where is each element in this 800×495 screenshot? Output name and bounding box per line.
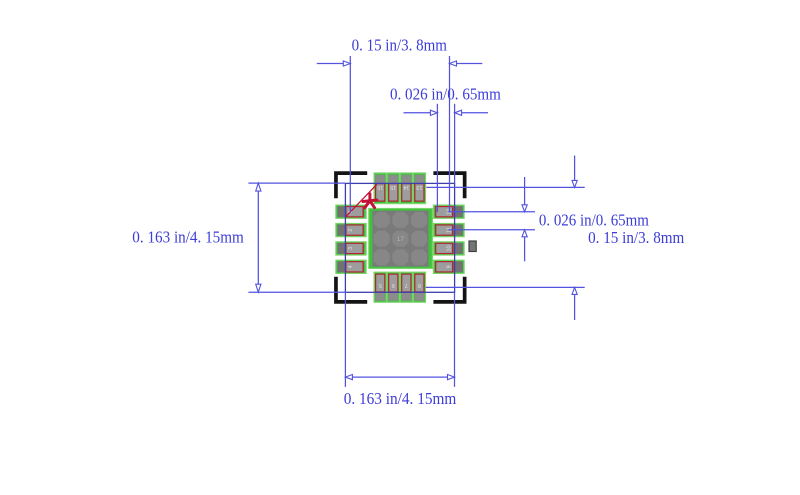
svg-text:7: 7: [405, 282, 408, 288]
pad 8 (bottom row): [413, 272, 425, 302]
pad 5 (bottom row): [374, 272, 386, 302]
svg-text:15: 15: [390, 184, 396, 190]
pad 11 (right column): [433, 223, 464, 236]
courtyard corner bracket top-right: [433, 171, 466, 198]
pin 1 indicator diagonal line: [346, 184, 377, 216]
pad 1 (left column): [336, 205, 366, 218]
pad 9 (right column): [433, 260, 464, 273]
pad 12 (right column): [433, 205, 464, 218]
svg-text:0. 026 in/0. 65mm: 0. 026 in/0. 65mm: [390, 85, 501, 104]
svg-text:8: 8: [418, 282, 421, 288]
svg-text:0. 026 in/0. 65mm: 0. 026 in/0. 65mm: [539, 211, 650, 230]
courtyard corner bracket bottom-right: [433, 277, 466, 304]
pad 3 (left column): [336, 242, 366, 255]
dimension 0.15in/3.8mm (right, vertical): [426, 156, 685, 321]
courtyard corner bracket top-left: [334, 171, 367, 198]
svg-text:16: 16: [377, 184, 383, 190]
dimension 0.163in/4.15mm (bottom, horizontal): [344, 292, 457, 408]
pad 10 (right column): [433, 242, 464, 255]
pad 13 (top row): [413, 173, 425, 204]
svg-text:0. 15 in/3. 8mm: 0. 15 in/3. 8mm: [352, 35, 448, 54]
courtyard corner bracket bottom-left: [334, 277, 367, 304]
pad 2 (left column): [336, 223, 366, 236]
dimension 0.163in/4.15mm (left, vertical): [132, 183, 345, 292]
svg-text:4: 4: [348, 265, 354, 268]
dimension 0.15in/3.8mm (top, horizontal): [317, 35, 483, 212]
svg-text:14: 14: [403, 184, 409, 190]
svg-text:10: 10: [447, 245, 453, 251]
dimension 0.026in/0.65mm (top, pad pitch): [390, 85, 501, 212]
svg-text:5: 5: [379, 282, 382, 288]
svg-text:17: 17: [397, 236, 405, 243]
pad 7 (bottom row): [400, 272, 412, 302]
svg-text:0. 163 in/4. 15mm: 0. 163 in/4. 15mm: [344, 389, 457, 408]
svg-text:0. 15 in/3. 8mm: 0. 15 in/3. 8mm: [588, 228, 685, 247]
svg-text:2: 2: [348, 229, 354, 232]
package body outline: [345, 183, 454, 292]
svg-text:0. 163 in/4. 15mm: 0. 163 in/4. 15mm: [132, 228, 244, 247]
svg-text:3: 3: [348, 247, 354, 250]
pad 6 (bottom row): [387, 272, 399, 302]
pad 14 (top row): [400, 173, 412, 204]
center thermal pad 17: [369, 209, 433, 269]
pad 16 (top row): [374, 173, 386, 204]
svg-text:9: 9: [447, 265, 453, 268]
dimension 0.026in/0.65mm (right, pad pitch): [449, 177, 650, 261]
pad 15 (top row): [387, 173, 399, 204]
svg-text:6: 6: [392, 282, 395, 288]
pad 4 (left column): [336, 260, 366, 273]
svg-text:13: 13: [416, 184, 422, 190]
orientation marker square: [469, 241, 476, 252]
pin 1 star marker: [363, 194, 377, 208]
